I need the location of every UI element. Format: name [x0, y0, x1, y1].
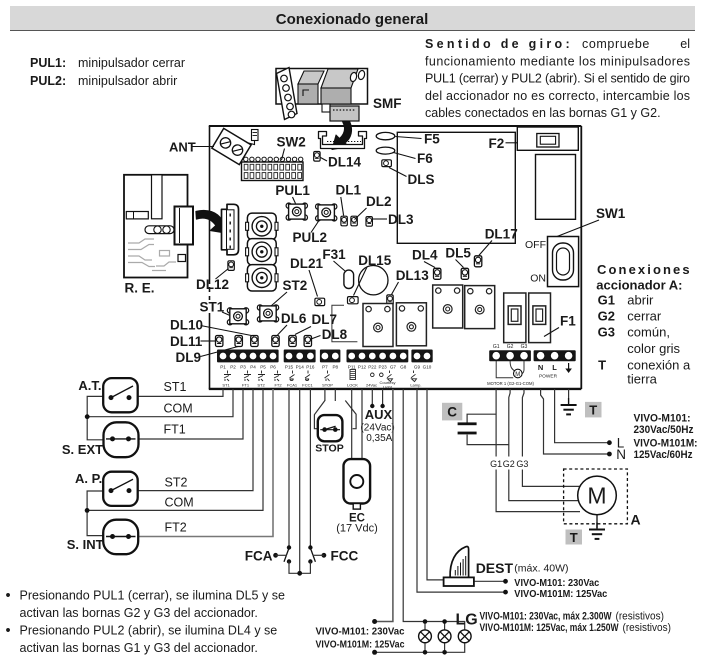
- wire P5-COM: [87, 389, 263, 510]
- pictogram ST2: [258, 371, 265, 382]
- DL7 LED: [289, 336, 296, 347]
- leader DL13: [392, 282, 399, 295]
- motor ground wire: [596, 515, 598, 528]
- leader DL3: [373, 218, 387, 220]
- svg-text:P1: P1: [220, 364, 226, 369]
- svg-text:VIVO-M101M:: VIVO-M101M:: [634, 438, 698, 450]
- leader DL8: [311, 336, 321, 340]
- DL3 LED: [366, 217, 372, 227]
- L dot: [607, 440, 612, 445]
- svg-text:del accionador no es correcto,: del accionador no es correcto, intercamb…: [425, 89, 690, 103]
- arrow R.E. to connector: [196, 210, 229, 233]
- pictogram FCA1: [290, 371, 295, 381]
- DL15 LED: [348, 297, 359, 304]
- svg-text:PUL2:: PUL2:: [30, 74, 66, 88]
- svg-text:A: A: [631, 512, 641, 528]
- pictogram FCC1: [305, 371, 310, 381]
- relay K1: [363, 304, 393, 347]
- svg-text:N: N: [538, 363, 543, 372]
- svg-text:FT1: FT1: [164, 423, 186, 437]
- pushbutton STOP: [314, 401, 356, 442]
- DL5 LED: [461, 268, 468, 279]
- svg-text:G2: G2: [507, 344, 514, 350]
- capacitor C wires: [467, 414, 509, 444]
- fuse F2: [517, 127, 578, 150]
- DEST return dot: [503, 590, 508, 595]
- svg-text:DLS: DLS: [408, 172, 435, 187]
- wire P2-COM: [88, 389, 233, 417]
- buzzer circle: [359, 266, 388, 295]
- relay K3: [433, 285, 463, 328]
- svg-text:DL8: DL8: [322, 327, 348, 342]
- wire P8-STOP: [334, 389, 336, 401]
- power terminal block: [534, 350, 576, 361]
- svg-text:PUL1:: PUL1:: [30, 56, 66, 70]
- svg-text:L: L: [552, 363, 557, 372]
- svg-text:G10: G10: [423, 364, 432, 369]
- svg-text:G1: G1: [490, 459, 502, 469]
- label G2: [503, 457, 515, 470]
- AUX dot 1: [370, 404, 374, 408]
- svg-text:accionador A:: accionador A:: [596, 278, 682, 293]
- paragraph: sentido de giro: [425, 37, 690, 120]
- svg-text:DL9: DL9: [176, 350, 202, 365]
- text Conexiones accionador: [596, 262, 691, 386]
- trimmer bank (3 round components): [246, 213, 278, 239]
- svg-text:P16: P16: [306, 364, 315, 369]
- leader DL14: [321, 158, 328, 162]
- pictogram courtesy light: [387, 371, 393, 382]
- wire G2-motor: [509, 389, 579, 501]
- bullet note 2: [6, 623, 278, 655]
- svg-text:P7: P7: [322, 364, 328, 369]
- svg-text:G1: G1: [493, 344, 500, 350]
- svg-text:DL4: DL4: [412, 248, 438, 263]
- capacitor C plates: [458, 422, 477, 434]
- svg-text:P12: P12: [358, 364, 367, 369]
- svg-text:LOCK: LOCK: [347, 383, 358, 388]
- leader SW2: [282, 149, 285, 161]
- wire G3-motor: [522, 389, 581, 486]
- svg-text:Presionando PUL1 (cerrar), se: Presionando PUL1 (cerrar), se ilumina DL…: [20, 589, 285, 603]
- DEST supply dot: [503, 579, 508, 584]
- svg-text:AUX: AUX: [365, 407, 393, 422]
- junction COM1: [85, 414, 90, 419]
- DL13 LED: [387, 295, 393, 305]
- svg-text:230Vac/50Hz: 230Vac/50Hz: [634, 424, 694, 436]
- leader F2: [506, 142, 518, 144]
- DL1 LED: [341, 216, 347, 226]
- svg-text:F31: F31: [322, 247, 346, 262]
- relay K4: [465, 286, 495, 329]
- svg-text:FT2: FT2: [274, 383, 282, 388]
- pictogram FT1: [244, 371, 251, 382]
- svg-text:el: el: [680, 37, 690, 51]
- svg-text:DL11: DL11: [170, 334, 203, 349]
- lamp DEST: [444, 547, 474, 586]
- svg-text:VIVO-M101M: 125Vac: VIVO-M101M: 125Vac: [514, 588, 607, 600]
- svg-text:S. EXT: S. EXT: [62, 442, 103, 457]
- svg-text:común,: común,: [627, 325, 670, 340]
- pushbutton PUL1: [286, 203, 307, 220]
- header bar: [10, 6, 695, 30]
- antenna component: [247, 130, 259, 145]
- wire P3-FT1: [138, 389, 243, 439]
- svg-text:DL10: DL10: [170, 318, 203, 333]
- lamp LG3: [458, 630, 471, 643]
- svg-text:ST2: ST2: [257, 383, 265, 388]
- svg-text:VIVO-M101M: 125Vac: VIVO-M101M: 125Vac: [316, 639, 405, 651]
- leader F5: [396, 137, 422, 139]
- svg-text:P4: P4: [250, 364, 256, 369]
- wire AT-SEXT left: [87, 396, 104, 439]
- relay K2: [396, 303, 426, 346]
- leader SW1: [557, 220, 599, 237]
- svg-text:F5: F5: [424, 132, 440, 147]
- leader DL17: [479, 241, 492, 256]
- terminal block P7 P8: [320, 350, 341, 363]
- wire P23-AUX: [382, 389, 384, 405]
- labels G1 G2 G3 small: [493, 344, 528, 350]
- svg-text:0,35A: 0,35A: [366, 433, 392, 444]
- svg-text:Presionando PUL2 (abrir), se i: Presionando PUL2 (abrir), se ilumina DL4…: [20, 624, 278, 638]
- wire P15-FCA: [288, 389, 290, 547]
- svg-text:F2: F2: [489, 136, 505, 151]
- junction dots lamp bottom: [423, 650, 428, 655]
- svg-text:P6: P6: [270, 364, 276, 369]
- svg-text:M: M: [515, 372, 520, 378]
- FCC tap: [313, 553, 327, 558]
- svg-text:STOP: STOP: [315, 443, 343, 455]
- leader F31: [334, 261, 346, 271]
- DL10 LED: [251, 336, 258, 347]
- wire G8-LG lamps: [403, 389, 465, 630]
- AUX dot 2: [380, 404, 384, 408]
- LG bottom line: [375, 643, 465, 652]
- svg-text:L: L: [617, 436, 625, 451]
- DL17 LED: [474, 256, 481, 267]
- svg-text:OFF: OFF: [525, 239, 546, 251]
- leader DL1: [341, 197, 344, 216]
- svg-text:G8: G8: [400, 364, 407, 369]
- svg-text:VIVO-M101:: VIVO-M101:: [634, 413, 691, 425]
- leader DL21: [309, 270, 318, 297]
- svg-text:abrir: abrir: [627, 293, 654, 308]
- svg-text:G1: G1: [598, 293, 615, 308]
- svg-text:(resistivos): (resistivos): [616, 611, 665, 623]
- wire N: [541, 389, 608, 454]
- svg-text:PUL2: PUL2: [293, 230, 328, 245]
- DL6 LED: [272, 336, 279, 347]
- pictogram LOCK: [350, 370, 356, 380]
- svg-text:tierra: tierra: [627, 371, 657, 386]
- label G3: [516, 457, 528, 470]
- svg-text:ST1: ST1: [222, 383, 230, 388]
- leader DL11: [201, 340, 216, 342]
- svg-text:FCC1: FCC1: [302, 383, 313, 388]
- wire P4-ST2: [138, 389, 253, 491]
- svg-text:(máx. 40W): (máx. 40W): [514, 563, 568, 575]
- pictogram 24Vac: [371, 373, 384, 377]
- svg-text:Light: Light: [383, 384, 393, 389]
- svg-text:minipulsador abrir: minipulsador abrir: [78, 74, 177, 88]
- svg-text:POWER: POWER: [539, 374, 558, 380]
- DL8 LED: [304, 336, 311, 347]
- R.E. receiver module: [124, 175, 193, 278]
- svg-text:FCC: FCC: [331, 549, 359, 564]
- svg-text:COM: COM: [165, 496, 194, 510]
- svg-text:S. INT: S. INT: [67, 537, 104, 552]
- svg-text:DL13: DL13: [396, 268, 430, 283]
- DL12 LED: [228, 261, 234, 271]
- junction COM2: [85, 508, 90, 513]
- pictogram FT2: [274, 371, 281, 382]
- terminal block P11-G8: [347, 350, 409, 363]
- svg-text:ST1: ST1: [200, 300, 225, 315]
- svg-text:P3: P3: [240, 364, 246, 369]
- SMF socket J1: [319, 132, 367, 149]
- svg-text:Sentido de giro:: Sentido de giro:: [425, 37, 573, 51]
- pushbutton ST1: [227, 308, 248, 325]
- svg-text:SMF: SMF: [373, 96, 402, 111]
- svg-text:G3: G3: [521, 344, 528, 350]
- wire P11-EC: [351, 389, 353, 459]
- wire P1-ST1: [139, 389, 224, 396]
- terminal block G9 G10: [411, 350, 432, 363]
- svg-text:ST1: ST1: [164, 380, 187, 394]
- leader ST1: [222, 312, 230, 316]
- svg-text:•: •: [6, 623, 11, 639]
- svg-text:FCA1: FCA1: [287, 383, 298, 388]
- svg-text:VIVO-M101: 230Vac, máx 2.300W: VIVO-M101: 230Vac, máx 2.300W: [480, 611, 612, 623]
- wire P6-FT2: [138, 389, 273, 537]
- svg-text:P5: P5: [260, 364, 266, 369]
- svg-text:MOTOR 1 (G2-G1-COM): MOTOR 1 (G2-G1-COM): [487, 381, 534, 386]
- svg-text:DL7: DL7: [312, 312, 338, 327]
- svg-text:color gris: color gris: [627, 341, 680, 356]
- pictogram STOP: [325, 371, 330, 382]
- fuse holder F1b: [529, 293, 551, 343]
- leader DL2: [355, 208, 367, 220]
- svg-text:DL3: DL3: [388, 212, 414, 227]
- lamp LG1: [419, 630, 432, 643]
- leader F1: [544, 328, 559, 337]
- leader DL9: [201, 347, 239, 357]
- svg-text:cables conectados en las borna: cables conectados en las bornas G1 y G2.: [425, 106, 661, 120]
- bullet note 1: [6, 588, 285, 620]
- svg-text:Conexiones: Conexiones: [597, 262, 692, 277]
- svg-text:M: M: [587, 483, 606, 509]
- svg-text:SW2: SW2: [277, 135, 306, 150]
- svg-text:(resistivos): (resistivos): [623, 622, 672, 634]
- silkscreen zone near DL8: [332, 305, 358, 342]
- svg-text:G3: G3: [516, 459, 528, 469]
- svg-text:cerrar: cerrar: [627, 309, 662, 324]
- junction dots lamp top: [423, 619, 428, 624]
- svg-text:P11: P11: [348, 364, 356, 369]
- svg-text:F6: F6: [417, 151, 433, 166]
- leader ANT: [192, 146, 215, 148]
- svg-text:SW1: SW1: [596, 206, 626, 221]
- terminal block P1-P6: [217, 350, 279, 363]
- capacitor F31: [344, 270, 354, 288]
- svg-text:24Vac: 24Vac: [366, 383, 377, 388]
- svg-text:G7: G7: [390, 364, 397, 369]
- svg-text:ON: ON: [530, 273, 546, 285]
- svg-text:funcionamiento mediante los mi: funcionamiento mediante los minipulsador…: [425, 54, 690, 68]
- motor terminal block G1 G2 G3: [489, 350, 531, 361]
- DL2 LED: [351, 216, 357, 226]
- svg-text:LG: LG: [456, 612, 478, 629]
- wire P7-STOP: [324, 389, 326, 401]
- wire P22-AUX: [371, 389, 373, 405]
- svg-text:P23: P23: [379, 364, 388, 369]
- relay box tall: [536, 155, 576, 220]
- leader DL12: [216, 269, 229, 280]
- svg-text:PUL1 (cerrar) y PUL2 (abrir).: PUL1 (cerrar) y PUL2 (abrir). Si el sent…: [425, 72, 690, 86]
- motor M indicator: [514, 369, 523, 378]
- arrow SMF to socket: [332, 121, 352, 150]
- DL14 LED: [314, 152, 320, 162]
- svg-text:T: T: [598, 358, 606, 373]
- pushbutton ST2: [257, 305, 278, 322]
- svg-text:FCA: FCA: [245, 549, 273, 564]
- svg-text:DL6: DL6: [281, 311, 307, 326]
- electrolock EC: [344, 459, 371, 509]
- svg-text:FT2: FT2: [165, 520, 187, 534]
- svg-text:activan las bornas G1 y G3 del: activan las bornas G1 y G3 del accionado…: [20, 641, 258, 655]
- svg-text:P2: P2: [230, 364, 236, 369]
- svg-text:DL1: DL1: [336, 183, 362, 198]
- DL4 LED: [434, 268, 441, 279]
- svg-text:C: C: [447, 404, 457, 419]
- leader F6: [394, 153, 416, 159]
- svg-text:ST2: ST2: [165, 475, 188, 489]
- wire G7-LG supply: [375, 389, 393, 622]
- leader PUL1: [293, 197, 296, 204]
- svg-text:minipulsador cerrar: minipulsador cerrar: [78, 56, 185, 70]
- T box power: [585, 402, 602, 418]
- svg-text:R. E.: R. E.: [125, 281, 155, 296]
- label G1: [490, 457, 502, 470]
- main board outline: [209, 126, 582, 389]
- leader DL15: [354, 267, 368, 296]
- svg-text:•: •: [6, 588, 11, 604]
- pictogram ST1: [224, 371, 231, 382]
- limit switch FCC: [300, 545, 316, 573]
- svg-text:(24Vac): (24Vac): [360, 423, 394, 434]
- wire G9-DEST return: [417, 389, 504, 592]
- svg-text:FT1: FT1: [242, 383, 250, 388]
- wire P12-EC: [361, 389, 363, 459]
- svg-text:Conexionado general: Conexionado general: [276, 11, 429, 28]
- wire G1-motor: [496, 389, 580, 512]
- wire DEST to dot: [474, 580, 504, 582]
- fuse holder F1a: [504, 293, 526, 343]
- svg-text:G3: G3: [598, 325, 615, 340]
- svg-text:P22: P22: [368, 364, 377, 369]
- ground motor: [589, 523, 605, 539]
- pushbutton PUL2: [316, 204, 337, 221]
- svg-text:G2: G2: [598, 309, 615, 324]
- terminal function labels: [222, 380, 421, 389]
- svg-text:DL12: DL12: [196, 277, 229, 292]
- DIP switch SW2: [242, 157, 304, 180]
- leader DLS: [389, 168, 407, 177]
- FCA tap: [273, 553, 287, 558]
- leader DL6: [278, 325, 288, 335]
- wire G10-DEST: [427, 389, 444, 580]
- svg-text:STOP: STOP: [322, 383, 333, 388]
- ground power: [561, 398, 577, 414]
- limit switch FCA: [284, 545, 300, 573]
- LG supply dot top: [372, 619, 377, 624]
- svg-text:(17 Vdc): (17 Vdc): [336, 523, 378, 535]
- wire AP-SINT left: [87, 491, 103, 536]
- DL21 LED: [315, 298, 325, 305]
- svg-text:A. P.: A. P.: [75, 471, 102, 486]
- svg-text:activan las bornas G2 y G3 del: activan las bornas G2 y G3 del accionado…: [20, 606, 258, 620]
- svg-text:VIVO-M101: 230Vac: VIVO-M101: 230Vac: [316, 626, 405, 638]
- N dot: [607, 452, 612, 457]
- switch A.T.: [103, 378, 138, 412]
- ANT terminal: [212, 128, 251, 164]
- wire earth: [568, 389, 570, 398]
- svg-text:G9: G9: [414, 364, 421, 369]
- svg-text:P14: P14: [296, 364, 305, 369]
- leader PUL2: [311, 221, 319, 233]
- lamp stubs: [425, 622, 445, 653]
- svg-text:DL14: DL14: [328, 155, 362, 170]
- fuse F6: [376, 147, 395, 154]
- svg-text:Lamp.: Lamp.: [410, 383, 421, 388]
- switch SW1: [548, 237, 579, 287]
- svg-text:conexión a: conexión a: [627, 358, 691, 373]
- svg-text:125Vac/60Hz: 125Vac/60Hz: [634, 449, 693, 461]
- svg-text:PUL1: PUL1: [275, 183, 310, 198]
- T box motor: [566, 530, 583, 545]
- terminal block P15 P14 P16: [284, 350, 316, 363]
- wire P16-FCC: [309, 389, 311, 547]
- DLS LED: [382, 160, 392, 167]
- wire L: [555, 389, 608, 443]
- lamp LG2: [438, 630, 451, 643]
- svg-text:P15: P15: [285, 364, 294, 369]
- svg-text:T: T: [589, 403, 597, 418]
- label box C: [442, 403, 462, 421]
- svg-text:P8: P8: [332, 364, 338, 369]
- wire P14 common: [299, 389, 301, 573]
- svg-text:DL21: DL21: [290, 256, 324, 271]
- SMF module U1: [276, 68, 368, 122]
- motor link wires: [496, 361, 513, 378]
- svg-text:ST2: ST2: [283, 278, 308, 293]
- svg-text:DEST: DEST: [476, 560, 514, 576]
- switch S.EXT: [104, 422, 139, 457]
- switch A.P.: [103, 472, 138, 506]
- svg-text:DL5: DL5: [445, 246, 471, 261]
- svg-text:A.T.: A.T.: [78, 378, 101, 393]
- svg-text:DL2: DL2: [366, 194, 392, 209]
- leader DL5: [456, 260, 464, 268]
- switch S.INT: [103, 520, 138, 555]
- svg-text:T: T: [570, 530, 578, 545]
- motor assembly A: [564, 469, 628, 524]
- junction FCA/FCC common: [297, 571, 302, 576]
- leader DL4: [424, 262, 435, 268]
- leader DL7: [295, 327, 311, 335]
- svg-text:F1: F1: [560, 314, 576, 329]
